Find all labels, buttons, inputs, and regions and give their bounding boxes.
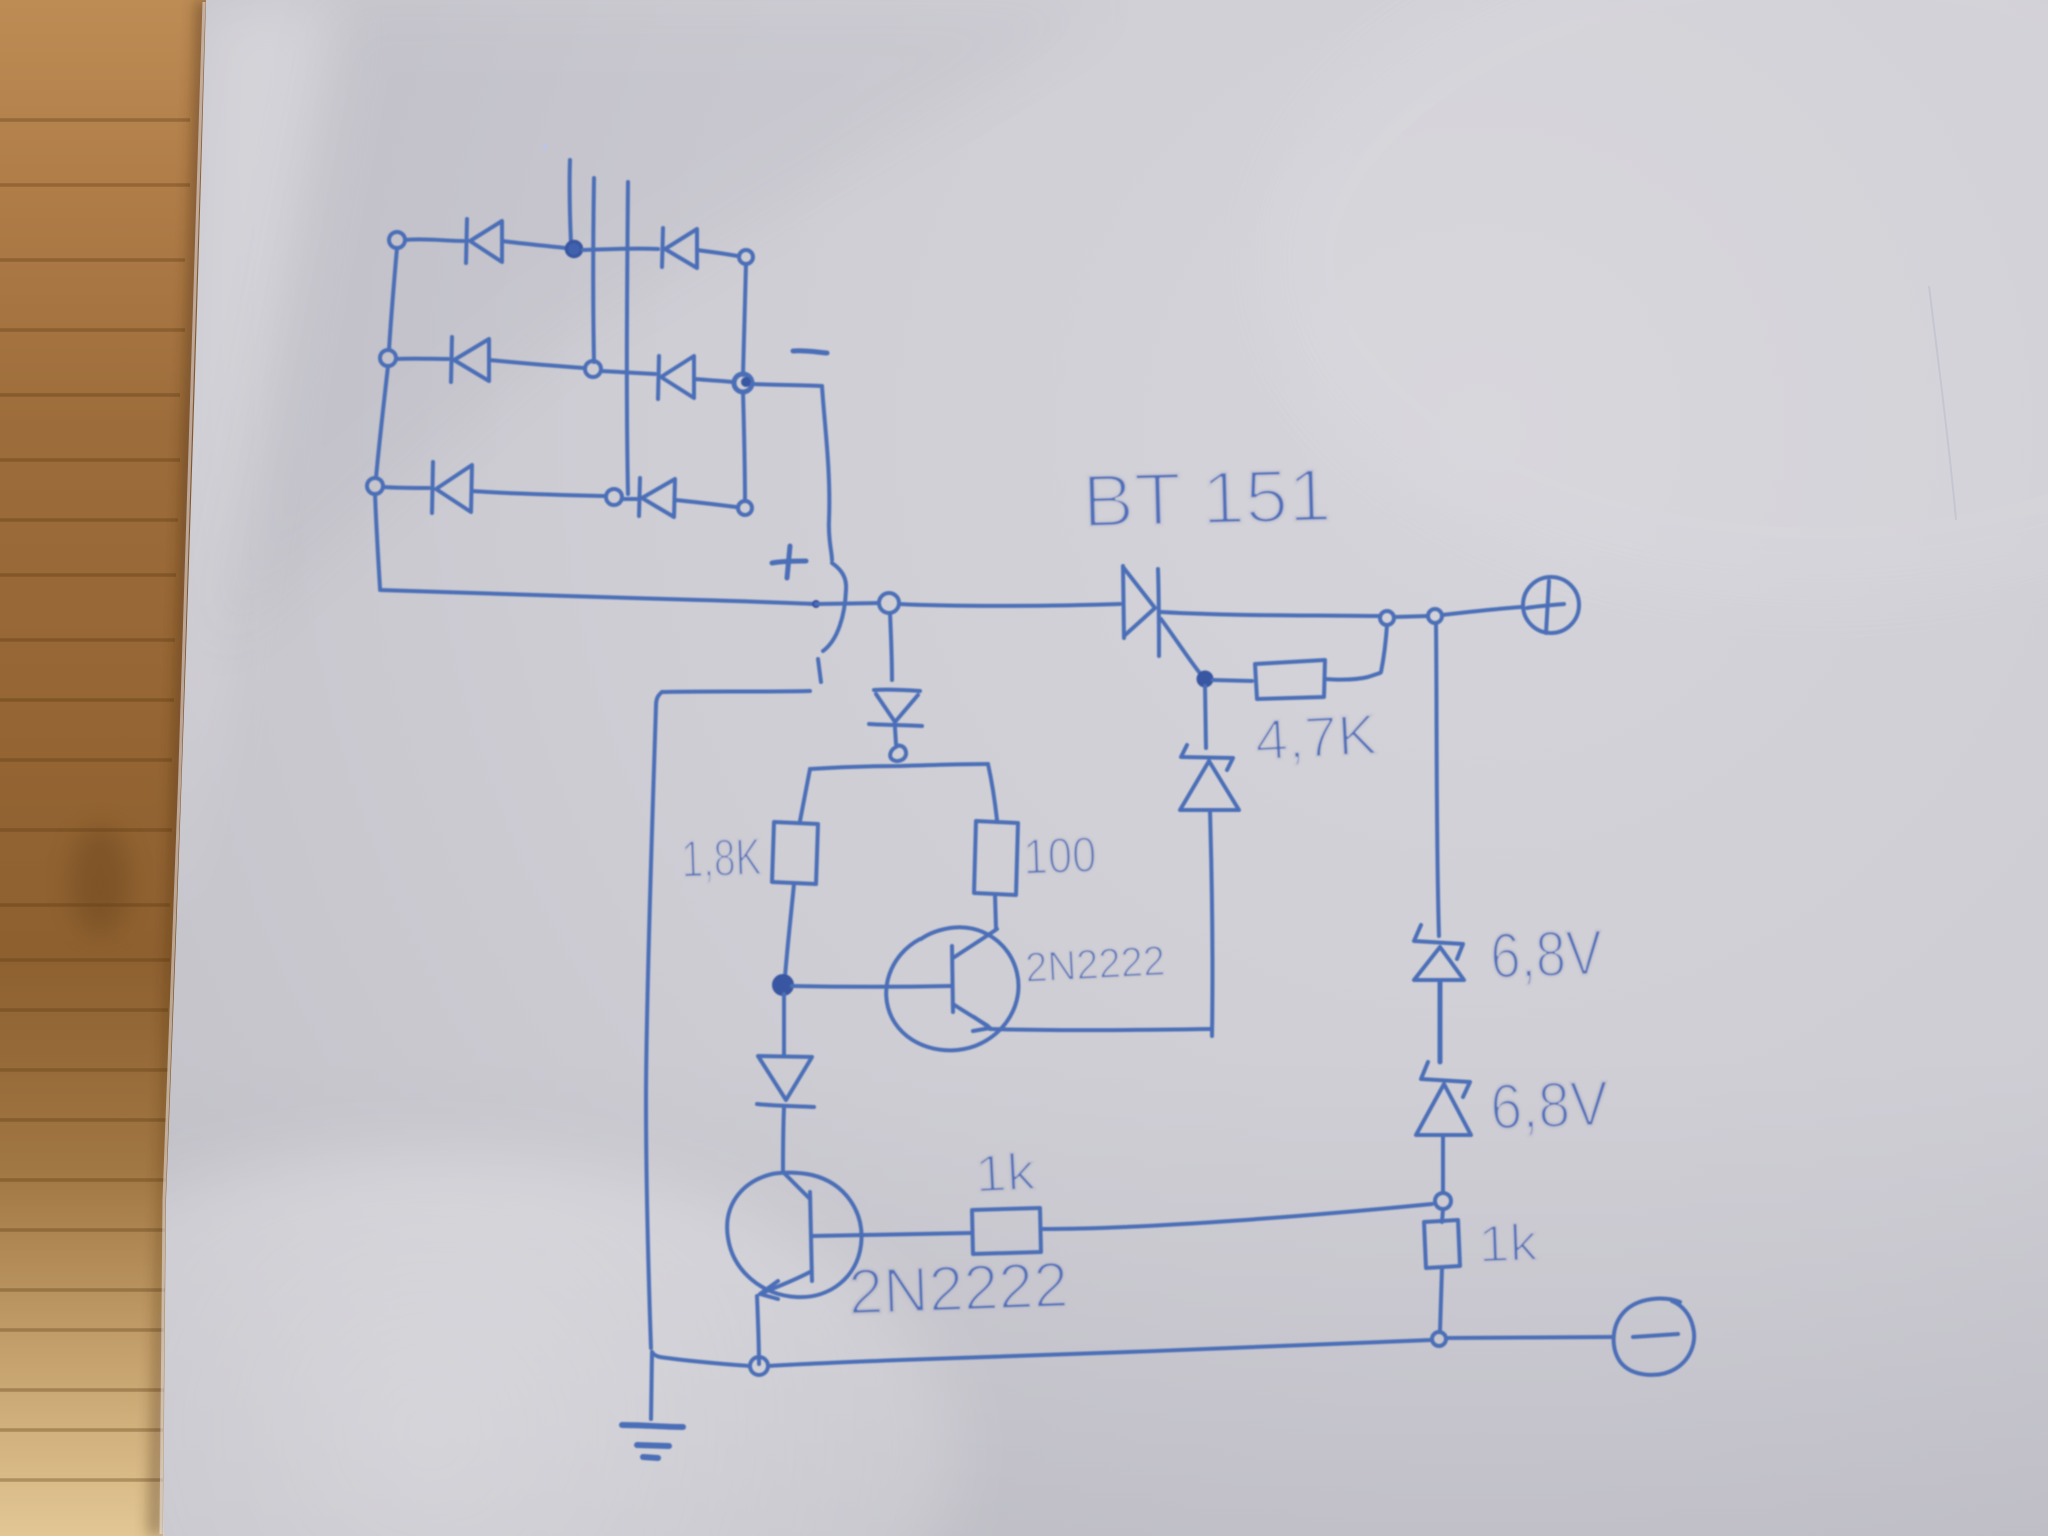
wire gate to R1 [1213, 680, 1252, 681]
node main line zener branch [1428, 609, 1442, 623]
svg-text:2N2222: 2N2222 [847, 1248, 1069, 1328]
wire [583, 249, 658, 250]
wire [697, 250, 738, 256]
wire Q1 emitter [990, 1029, 1211, 1030]
node A [774, 976, 792, 994]
wire from main node down to D8 [890, 613, 892, 680]
node bridge row1 centre [567, 242, 582, 257]
wire bridge right bus [743, 264, 746, 375]
junction kink [812, 600, 820, 608]
terminal minus [1614, 1299, 1694, 1375]
wood grain lines [0, 120, 190, 1480]
wire bridge left bus [389, 248, 397, 350]
terminal plus [1523, 577, 1579, 633]
wire zener2 to node [1441, 1136, 1445, 1193]
node b [890, 746, 906, 761]
node bottom bus emitter [750, 1357, 768, 1375]
wire phase input A [570, 160, 571, 243]
resistor R5 1k body [972, 1208, 1041, 1254]
wire [472, 491, 605, 496]
zener ZD1 6,8V [1414, 925, 1464, 980]
svg-text:1k: 1k [1477, 1214, 1539, 1274]
node gate [1199, 673, 1212, 686]
shadow of paper edge on wood [148, 0, 214, 1536]
wire between zeners [1438, 981, 1443, 1062]
wire [396, 357, 448, 361]
wire R4 down [1440, 1268, 1442, 1331]
wire [601, 371, 655, 374]
node main line R1 [1380, 611, 1394, 625]
wire [675, 500, 736, 507]
node bottom bus right [1432, 1332, 1446, 1346]
label minus (bridge output) [793, 351, 827, 353]
svg-text:6,8V: 6,8V [1489, 916, 1604, 992]
svg-text:1k: 1k [974, 1143, 1038, 1204]
label plus (bridge output) [772, 546, 806, 578]
wire R2 to node A [785, 884, 794, 977]
node bridge row2 right [734, 374, 752, 392]
node bridge row3 centre [606, 489, 622, 505]
diode D3 [451, 337, 489, 382]
wire node A to Q2 base chain: diode D9 above Q2 [782, 994, 786, 1055]
wire [1394, 616, 1428, 617]
wire thyristor gate [1161, 619, 1199, 672]
wire [502, 241, 565, 248]
wire to minus terminal [1447, 1337, 1613, 1338]
resistor R2 1,8K body [772, 822, 818, 884]
wire bottom bus left [652, 1352, 750, 1366]
wire stub below hop [818, 659, 821, 682]
resistor R1 4,7K body [1255, 660, 1325, 699]
wire negative rail vertical [646, 692, 662, 1348]
wire down to R2 [800, 769, 810, 821]
paper edge highlight [161, 2, 204, 1534]
zener ZD2 6,8V [1416, 1062, 1471, 1135]
wire node to R4 [1442, 1209, 1443, 1222]
svg-text:100: 100 [1022, 826, 1097, 885]
diode D4 [658, 356, 694, 399]
wire [383, 487, 429, 488]
node bridge row2 left [380, 350, 396, 366]
node bridge row2 centre [585, 361, 601, 377]
wire b horizontal [810, 764, 988, 769]
svg-text:4,7K: 4,7K [1253, 703, 1378, 773]
diode D7 [1180, 745, 1239, 810]
resistor R4 1k body [1424, 1220, 1460, 1268]
svg-text:BT 151: BT 151 [1081, 453, 1332, 543]
faint scratch on paper [1929, 286, 1956, 520]
diode D8 [869, 690, 922, 726]
tiny bright speck [543, 145, 548, 150]
wire to plus terminal [1442, 607, 1521, 615]
diode D2 [662, 228, 697, 268]
thyristor BT151 [1123, 566, 1159, 656]
svg-text:1,8K: 1,8K [680, 828, 762, 889]
node bridge row3 left [367, 478, 383, 494]
node bridge row1 right [739, 250, 753, 264]
node bridge row3 right [738, 501, 752, 515]
wire R1 right [1325, 673, 1380, 680]
transistor Q2 2N2222 [727, 1173, 861, 1299]
diode D9 [757, 1056, 814, 1107]
wire down to R3 [988, 764, 997, 820]
wire Q2 emitter down [757, 1296, 759, 1364]
ground [622, 1352, 683, 1458]
wire zener branch down [1436, 623, 1439, 936]
diode D1 [466, 219, 502, 263]
wire [489, 360, 584, 368]
wire [405, 239, 463, 241]
wire hop over main line [823, 563, 846, 651]
wire [622, 497, 637, 501]
svg-text:6,8V: 6,8V [1489, 1067, 1610, 1143]
wire bottom bus [768, 1340, 1431, 1366]
wire minus output down [822, 386, 832, 560]
wire minus output across [752, 384, 822, 386]
wire negative rail top horizontal [662, 691, 810, 692]
node zener / 1k junction [1435, 1193, 1451, 1209]
wire Q2 base to R5 [812, 1233, 970, 1236]
wire positive bus from bridge [380, 590, 815, 604]
wire [816, 603, 878, 604]
wire gate diode chain down [1205, 686, 1206, 748]
wire phase input C [627, 182, 628, 494]
wire D8 to b node [895, 728, 896, 744]
wire [694, 379, 733, 382]
svg-text:2N2222: 2N2222 [1024, 937, 1166, 991]
wire R5 to zener node [1041, 1204, 1432, 1229]
wire riser to main line [1381, 625, 1387, 672]
node bridge row1 left [389, 232, 405, 248]
wire thyristor cathode out [1161, 612, 1380, 616]
resistor R3 100 body [974, 821, 1018, 895]
wire node A to Q1 base [792, 984, 951, 989]
wire D9 to Q2 collector [783, 1108, 784, 1171]
node main line left [879, 593, 899, 613]
diode D6 [639, 478, 675, 517]
diode D5 [432, 462, 472, 513]
wire main line to thyristor [899, 604, 1120, 606]
wire R3 to Q1 collector [995, 895, 996, 928]
wire D7 to emitter line [1210, 811, 1212, 1036]
transistor Q1 2N2222 [886, 927, 1018, 1050]
wire phase input B [591, 178, 596, 362]
